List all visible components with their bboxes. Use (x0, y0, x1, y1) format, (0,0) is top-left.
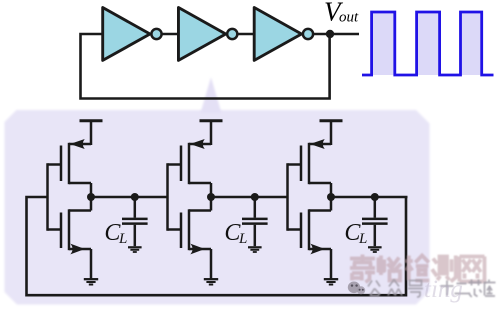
waveform fill (output square wave pulses) (372, 12, 482, 75)
ground symbol (NMOS source) stage 3 (324, 279, 338, 284)
inverter U2 (logic symbol) (178, 8, 237, 61)
transistor NMOS M1n (48, 197, 92, 279)
capacitor CL1 (122, 197, 148, 246)
value label CL3 (344, 220, 367, 247)
wire output node stage 3 (331, 196, 408, 199)
watermark italic latin "ting" (424, 276, 463, 303)
wire U3 output (Vout net) (314, 33, 359, 36)
waveform trace (output square wave) (362, 12, 494, 75)
transistor NMOS M3n (288, 197, 332, 279)
value label CL2 (224, 220, 247, 247)
node dot: capacitor junction stage 1 (131, 193, 139, 201)
node dot: drain junction stage 1 (87, 193, 95, 201)
callout pointer triangle (201, 77, 222, 113)
watermark logo icon (348, 282, 365, 295)
wire U2 output to U3 input (238, 33, 255, 36)
gate bus wire stage 2 (166, 163, 169, 230)
node dot Vout junction (326, 30, 334, 38)
capacitor CL3 (362, 197, 388, 246)
transistor NMOS M2n (168, 197, 212, 279)
inverter U1 (logic symbol) (103, 8, 162, 61)
svg-text:L: L (238, 231, 247, 247)
ground symbol (NMOS source) stage 1 (84, 279, 98, 284)
inverter U3 (logic symbol) (254, 8, 313, 61)
capacitor CL2 (242, 197, 268, 246)
node dot: drain junction stage 2 (207, 193, 215, 201)
callout panel (transistor-level detail bubble) (5, 110, 430, 305)
value label CL1 (104, 220, 127, 247)
feedback loop wire (Vout to inverter U1 input) (81, 34, 330, 99)
transistor PMOS M1p (48, 139, 92, 198)
wire output node stage 2 (211, 196, 288, 199)
VDD supply symbol stage 3 (320, 121, 343, 145)
gate bus wire stage 3 (286, 163, 289, 230)
VDD supply symbol stage 1 (80, 121, 103, 145)
svg-text:L: L (358, 231, 367, 247)
watermark small gray CJK text (pseudo glyphs) (368, 280, 496, 298)
transistor PMOS M2p (168, 139, 212, 198)
gate bus wire stage 1 (46, 163, 49, 230)
transistor PMOS M3p (288, 139, 332, 198)
VDD supply symbol stage 2 (200, 121, 223, 145)
node dot: drain junction stage 3 (327, 193, 335, 201)
node dot: capacitor junction stage 2 (251, 193, 259, 201)
watermark big CJK text (pseudo glyphs) (350, 255, 487, 283)
svg-text:out: out (339, 10, 359, 26)
ground symbol (capacitor) stage 3 (368, 247, 382, 252)
node dot: capacitor junction stage 3 (371, 193, 379, 201)
wire output node stage 1 (91, 196, 168, 199)
wire U1 output to U2 input (163, 33, 180, 36)
svg-text:L: L (118, 231, 127, 247)
ground symbol (capacitor) stage 1 (128, 247, 142, 252)
svg-text:ting: ting (424, 276, 463, 303)
wire feedback (stage3 output to stage1 input) (27, 197, 407, 295)
ground symbol (capacitor) stage 2 (248, 247, 262, 252)
net label Vout (324, 0, 359, 26)
ground symbol (NMOS source) stage 2 (204, 279, 218, 284)
